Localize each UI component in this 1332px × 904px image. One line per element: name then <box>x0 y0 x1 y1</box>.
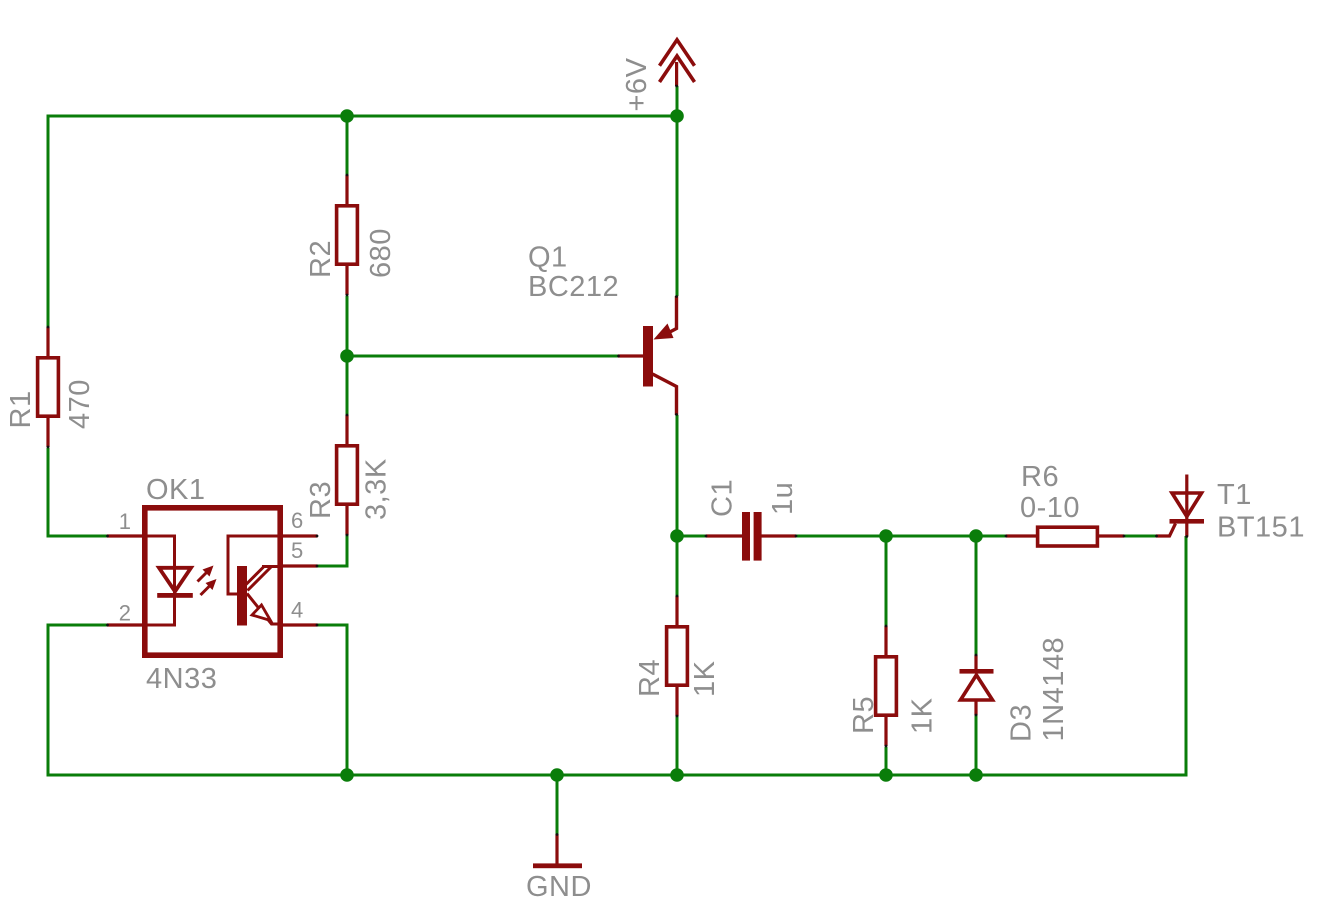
resistor R3 <box>345 415 348 535</box>
svg-text:GND: GND <box>526 871 592 903</box>
wire: R5 node down to R5 <box>885 536 888 626</box>
svg-text:5: 5 <box>291 538 304 563</box>
optocoupler OK1 box <box>145 508 280 655</box>
OK1 phototransistor bar <box>237 566 247 626</box>
svg-text:BT151: BT151 <box>1217 512 1305 544</box>
wire: C1 node down to R4 <box>676 536 679 596</box>
resistor R2 <box>345 175 348 295</box>
diode D3 <box>974 655 977 715</box>
svg-text:470: 470 <box>64 379 96 429</box>
wire: OK1 pin 2 to ground rail <box>48 625 107 776</box>
OK1 light arrow upper <box>198 572 208 582</box>
capacitor C1 <box>706 534 796 537</box>
svg-text:1u: 1u <box>767 482 799 515</box>
thyristor T1 triangle <box>1172 493 1202 517</box>
thyristor T1 anode lead <box>1185 475 1188 494</box>
svg-text:R6: R6 <box>1021 461 1059 493</box>
junction: ground rail / R5 <box>879 768 893 782</box>
wire: Q1 collector to C1 node <box>676 415 679 536</box>
OK1 phototransistor emitter with open arrow <box>247 594 280 625</box>
svg-text:1K: 1K <box>689 660 721 697</box>
svg-text:C1: C1 <box>707 479 739 517</box>
transistor Q1 collector <box>653 374 677 415</box>
OK1 pin 1 <box>107 534 145 537</box>
wire: base node to Q1 base <box>347 355 618 358</box>
svg-text:1K: 1K <box>907 697 939 734</box>
svg-text:4: 4 <box>291 598 304 623</box>
junction: top rail / R2 <box>340 109 354 123</box>
svg-text:2: 2 <box>119 601 132 626</box>
supply +6V symbol <box>675 62 678 86</box>
OK1 phototransistor collector double line <box>246 566 272 591</box>
OK1 pin 5 <box>280 564 318 567</box>
svg-text:R1: R1 <box>5 390 37 428</box>
wire: R3 bottom to OK1 pin 5 <box>317 535 347 566</box>
junction: C1 node collector/R4/C1 <box>670 529 684 543</box>
OK1 pin 4 <box>280 623 318 626</box>
transistor Q1 emitter with arrow <box>667 296 677 334</box>
junction: ground rail / OK1 pin 4 <box>340 768 354 782</box>
wire: C1 node to C1 left plate <box>677 535 706 538</box>
resistor R5 <box>884 626 887 746</box>
junction: ground rail / D3 <box>969 768 983 782</box>
resistor R6 <box>1006 534 1124 537</box>
OK1 phototransistor base routing <box>228 536 280 594</box>
svg-text:OK1: OK1 <box>146 474 206 506</box>
wire: T1 cathode to ground rail <box>1185 536 1188 776</box>
wire: R6 to T1 gate <box>1124 535 1156 538</box>
wire: base node down to R3 <box>346 356 349 415</box>
wire: top rail down to R1 <box>47 115 50 328</box>
wire: OK1 pin 4 to ground rail <box>317 625 347 776</box>
OK1 internal LED anode/cathode routing <box>147 536 175 625</box>
junction: R5 top node <box>879 529 893 543</box>
wire: top rail to Q1 emitter <box>676 116 679 296</box>
svg-text:1: 1 <box>119 509 132 534</box>
thyristor T1 cathode stub <box>1185 524 1188 537</box>
wire: R1 bottom to OK1 pin 1 <box>48 448 107 536</box>
junction: base node R2-R3-Q1 <box>340 349 354 363</box>
wire: +6V top rail net <box>47 115 678 118</box>
svg-text:4N33: 4N33 <box>146 663 217 695</box>
svg-text:BC212: BC212 <box>528 271 619 303</box>
ground symbol GND <box>555 834 558 864</box>
transistor Q1 body bar <box>643 326 653 387</box>
wire: top rail down to R2 <box>346 116 349 175</box>
junction: ground rail / R4 <box>670 768 684 782</box>
svg-text:R5: R5 <box>848 696 880 734</box>
svg-text:R3: R3 <box>305 481 337 519</box>
junction: top rail / Q1 emitter / +6V <box>670 109 684 123</box>
OK1 internal LED <box>159 568 191 592</box>
wire: R2 bottom to base node <box>346 296 349 357</box>
transistor Q1 base lead <box>618 354 643 357</box>
wire: C1 right plate to R5 and D3 nodes and R6 <box>796 535 1006 538</box>
wire: D3 bottom to ground rail <box>975 715 978 776</box>
wire: R4 bottom to ground rail <box>676 715 679 776</box>
OK1 light arrow lower <box>201 586 211 596</box>
svg-text:T1: T1 <box>1217 479 1252 511</box>
junction: ground rail / GND stub <box>550 768 564 782</box>
junction: D3 top node <box>969 529 983 543</box>
svg-text:D3: D3 <box>1006 704 1038 742</box>
svg-text:680: 680 <box>365 228 397 278</box>
svg-text:R2: R2 <box>305 240 337 278</box>
resistor R4 <box>675 596 678 716</box>
resistor R1 <box>46 327 49 447</box>
wire: +6V supply stub to top rail <box>676 86 679 116</box>
svg-text:1N4148: 1N4148 <box>1038 637 1070 742</box>
thyristor T1 gate <box>1156 524 1176 537</box>
wire: D3 node down to D3 <box>975 536 978 655</box>
thyristor T1 cathode bar <box>1170 519 1205 524</box>
svg-text:3,3K: 3,3K <box>361 458 393 520</box>
wire: R5 bottom to ground rail <box>885 747 888 776</box>
wire: ground rail stub to GND symbol <box>556 775 559 834</box>
OK1 pin 6 <box>280 534 318 537</box>
svg-text:+6V: +6V <box>621 57 653 111</box>
OK1 pin 2 <box>107 623 145 626</box>
svg-text:0-10: 0-10 <box>1020 492 1080 524</box>
svg-text:6: 6 <box>291 508 304 533</box>
svg-text:R4: R4 <box>634 659 666 697</box>
wire: ground rail net <box>47 774 1188 777</box>
svg-text:Q1: Q1 <box>528 242 568 274</box>
